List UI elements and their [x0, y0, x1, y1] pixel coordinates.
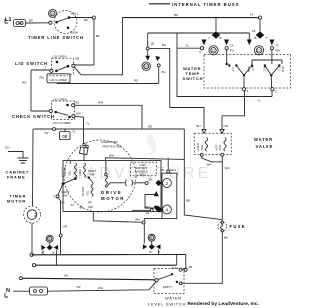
- svg-text:FUSE: FUSE: [230, 224, 246, 229]
- svg-text:BK: BK: [76, 57, 80, 61]
- svg-text:14: 14: [144, 65, 148, 69]
- svg-text:N: N: [6, 288, 10, 294]
- svg-text:GN: GN: [5, 146, 10, 150]
- svg-text:7A: 7A: [230, 44, 234, 48]
- svg-text:1B: 1B: [151, 42, 155, 46]
- svg-text:B: B: [255, 36, 257, 40]
- svg-text:W-W: W-W: [247, 67, 251, 73]
- svg-text:WH: WH: [207, 163, 212, 167]
- svg-text:NO: NO: [75, 101, 80, 105]
- svg-text:CHECK SWITCH: CHECK SWITCH: [12, 114, 55, 119]
- svg-text:WH: WH: [109, 154, 114, 158]
- svg-text:HOT: HOT: [215, 144, 219, 150]
- svg-text:VALVE: VALVE: [256, 144, 274, 149]
- svg-text:BK: BK: [29, 19, 33, 23]
- svg-text:WH: WH: [98, 286, 103, 290]
- svg-text:ONLY: ONLY: [139, 173, 147, 177]
- svg-text:WH: WH: [225, 166, 230, 170]
- svg-text:BK: BK: [174, 13, 178, 17]
- svg-text:2H: 2H: [64, 274, 68, 278]
- svg-text:TIMER LINE SWITCH: TIMER LINE SWITCH: [28, 35, 84, 40]
- svg-text:12: 12: [71, 203, 75, 207]
- svg-text:EMPTY: EMPTY: [163, 285, 172, 289]
- svg-text:WH: WH: [171, 168, 176, 172]
- svg-text:14: 14: [250, 13, 254, 17]
- svg-text:22: 22: [146, 211, 150, 215]
- svg-text:RED: RED: [78, 168, 82, 175]
- svg-text:BU: BU: [197, 124, 201, 128]
- svg-text:LID SWITCH: LID SWITCH: [15, 61, 48, 66]
- svg-text:FRAME: FRAME: [7, 175, 25, 180]
- svg-text:BN: BN: [136, 218, 140, 222]
- svg-text:D: D: [51, 11, 54, 16]
- svg-text:YL: YL: [186, 44, 190, 48]
- svg-text:SW: SW: [63, 194, 68, 198]
- svg-text:LEVEL SWITCH: LEVEL SWITCH: [148, 302, 186, 307]
- svg-text:FULL: FULL: [172, 266, 180, 270]
- svg-text:MOTOR: MOTOR: [101, 196, 125, 201]
- svg-text:PU: PU: [230, 49, 234, 53]
- svg-text:LID OPEN: LID OPEN: [53, 55, 67, 59]
- svg-text:1B: 1B: [161, 168, 165, 172]
- svg-text:C-C: C-C: [277, 67, 281, 72]
- svg-text:BK: BK: [96, 34, 100, 38]
- svg-text:8: 8: [49, 237, 51, 241]
- svg-text:YL: YL: [257, 99, 261, 103]
- svg-text:SLOW: SLOW: [63, 167, 67, 176]
- svg-text:SOL: SOL: [200, 144, 204, 150]
- svg-text:LID CLOSED: LID CLOSED: [50, 78, 69, 82]
- svg-text:7T: 7T: [275, 44, 279, 48]
- svg-text:PROTECTOR: PROTECTOR: [103, 144, 123, 148]
- svg-text:BK: BK: [224, 236, 228, 240]
- svg-text:WATER: WATER: [165, 296, 182, 301]
- svg-text:BU: BU: [162, 70, 166, 74]
- svg-text:YL: YL: [86, 122, 90, 126]
- svg-text:B: B: [150, 250, 152, 254]
- svg-text:LID OPEN: LID OPEN: [53, 97, 67, 101]
- svg-text:SW: SW: [76, 112, 81, 116]
- svg-text:PUSH: PUSH: [70, 31, 78, 35]
- svg-text:LID CLOSED: LID CLOSED: [53, 121, 72, 125]
- svg-text:START: START: [81, 186, 85, 196]
- svg-text:10: 10: [257, 49, 261, 53]
- svg-text:7W: 7W: [76, 285, 81, 289]
- svg-text:W-C: W-C: [263, 67, 267, 72]
- svg-text:7W: 7W: [44, 131, 49, 135]
- svg-text:YEL: YEL: [68, 170, 72, 176]
- svg-text:18: 18: [252, 29, 256, 33]
- svg-text:COLD: COLD: [196, 143, 200, 151]
- svg-text:C-C: C-C: [231, 67, 235, 72]
- svg-text:SW: SW: [90, 173, 95, 177]
- svg-text:L1: L1: [5, 17, 11, 23]
- svg-text:Rendered by LeadVenture, Inc.: Rendered by LeadVenture, Inc.: [188, 301, 260, 307]
- svg-text:W-W: W-W: [281, 67, 285, 73]
- svg-text:BK: BK: [84, 18, 88, 22]
- svg-text:4B: 4B: [189, 265, 193, 269]
- svg-text:OB: OB: [62, 134, 68, 139]
- svg-text:SWITCH: SWITCH: [183, 76, 204, 81]
- svg-text:WH: WH: [98, 101, 103, 105]
- svg-text:SOL: SOL: [218, 144, 222, 150]
- svg-text:T: T: [159, 250, 161, 254]
- svg-text:TM: TM: [33, 213, 37, 218]
- svg-text:INTERNAL TIMER BUSS: INTERNAL TIMER BUSS: [172, 2, 239, 7]
- svg-text:WATER: WATER: [254, 137, 273, 142]
- svg-text:T: T: [266, 36, 268, 40]
- svg-text:PULL: PULL: [71, 12, 79, 16]
- svg-text:6: 6: [151, 236, 153, 240]
- svg-text:YEL: YEL: [86, 190, 90, 196]
- svg-text:12: 12: [211, 49, 215, 53]
- svg-text:BK: BK: [80, 206, 84, 210]
- svg-text:DRIVE: DRIVE: [101, 190, 122, 195]
- svg-text:MOTOR: MOTOR: [7, 199, 26, 204]
- svg-text:YL: YL: [72, 130, 76, 134]
- svg-text:OVERLOAD: OVERLOAD: [101, 140, 119, 144]
- svg-text:22: 22: [88, 200, 92, 204]
- svg-text:B: B: [220, 36, 222, 40]
- svg-text:BU: BU: [162, 43, 166, 47]
- svg-text:BK: BK: [149, 178, 153, 182]
- svg-text:WH: WH: [275, 49, 280, 53]
